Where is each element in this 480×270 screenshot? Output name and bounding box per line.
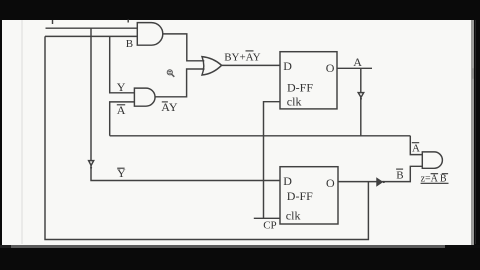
wire Y input [110, 36, 135, 92]
wire outer feedback loop [45, 36, 368, 239]
wire feedback A horizontal [110, 135, 411, 137]
tick mark 1 [52, 20, 54, 24]
OR gate [202, 57, 222, 75]
wire top input 2 (B) [45, 35, 137, 37]
faint page fold line [21, 20, 23, 244]
wire A feedback vertical [360, 68, 362, 136]
AND gate right [422, 152, 442, 168]
svg-text:clk: clk [286, 209, 301, 223]
wire DFF2 output Bbar [338, 166, 422, 181]
svg-text:D: D [283, 59, 292, 73]
D flip-flop 1 box [280, 52, 337, 109]
wire DFF1 output A [337, 67, 372, 69]
label AbarY [161, 100, 178, 114]
label BY+AbarY [224, 51, 260, 64]
svg-text:Y: Y [117, 80, 126, 94]
AND gate middle [134, 88, 155, 106]
D flip-flop 2 box [280, 167, 338, 224]
svg-text:BY+AY: BY+AY [224, 52, 260, 64]
label Bbar [396, 169, 403, 181]
svg-text:O: O [326, 176, 335, 190]
magnifier cursor [167, 70, 174, 77]
svg-text:O: O [326, 61, 335, 75]
arrow down on Ybar wire [89, 161, 94, 169]
wire Abar input corner [110, 102, 135, 136]
svg-text:B: B [396, 169, 403, 181]
wire OR output to DFF1 D [222, 64, 280, 66]
wire top input 1 [46, 27, 138, 29]
tick mark 2 [127, 20, 129, 23]
arrow down on A feedback [358, 93, 364, 100]
svg-text:D-FF: D-FF [287, 80, 313, 94]
svg-text:B: B [126, 38, 133, 50]
wire CP input [254, 217, 280, 219]
wire right corner to AND3 upper input [410, 136, 422, 155]
arrow right on Bbar wire [377, 179, 385, 186]
wire clk line DFF1 and vertical [264, 102, 281, 219]
label Abar (right) [412, 143, 420, 155]
svg-text:A: A [353, 55, 362, 69]
svg-text:D: D [283, 174, 292, 188]
AND gate top [137, 23, 163, 46]
svg-text:CP: CP [263, 219, 276, 231]
label Ybar [117, 166, 126, 180]
svg-text:clk: clk [287, 95, 302, 109]
svg-text:A: A [412, 143, 420, 155]
wire AND2 output to OR [155, 69, 204, 97]
label z equals AbarBbar [421, 174, 449, 185]
label Abar (AND2 input) [117, 103, 126, 117]
wire AND1 output to OR [163, 34, 205, 61]
wire Ybar vertical to DFF2 D [91, 28, 280, 180]
svg-text:D-FF: D-FF [287, 189, 313, 203]
